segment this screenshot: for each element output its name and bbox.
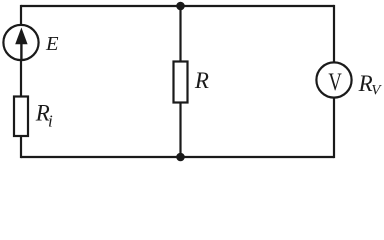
node top junction	[176, 2, 185, 11]
wire right branch top (corner to voltmeter)	[333, 5, 335, 62]
node bottom junction	[176, 153, 185, 162]
wire bottom horizontal rail	[21, 156, 334, 158]
svg-text:R: R	[194, 68, 209, 93]
source E (circle with upward arrow)	[3, 25, 38, 60]
wire left branch middle (source to Ri)	[20, 61, 22, 98]
wire middle branch bottom (R to node)	[179, 103, 181, 158]
wire left branch bottom (Ri to bottom rail)	[20, 136, 22, 159]
wire top horizontal rail	[21, 5, 334, 7]
resistor Ri	[14, 97, 28, 137]
svg-text:V: V	[328, 67, 342, 95]
wire left branch top (corner to source)	[20, 5, 22, 25]
resistor R	[174, 62, 188, 103]
wire middle branch top (node to R)	[179, 6, 181, 62]
wire right branch bottom (voltmeter to bottom rail)	[333, 98, 335, 158]
label Rv	[358, 71, 383, 99]
svg-text:i: i	[48, 112, 53, 131]
svg-text:V: V	[371, 83, 382, 99]
voltmeter V	[316, 62, 351, 97]
svg-text:E: E	[45, 33, 59, 55]
label Ri	[35, 100, 53, 130]
